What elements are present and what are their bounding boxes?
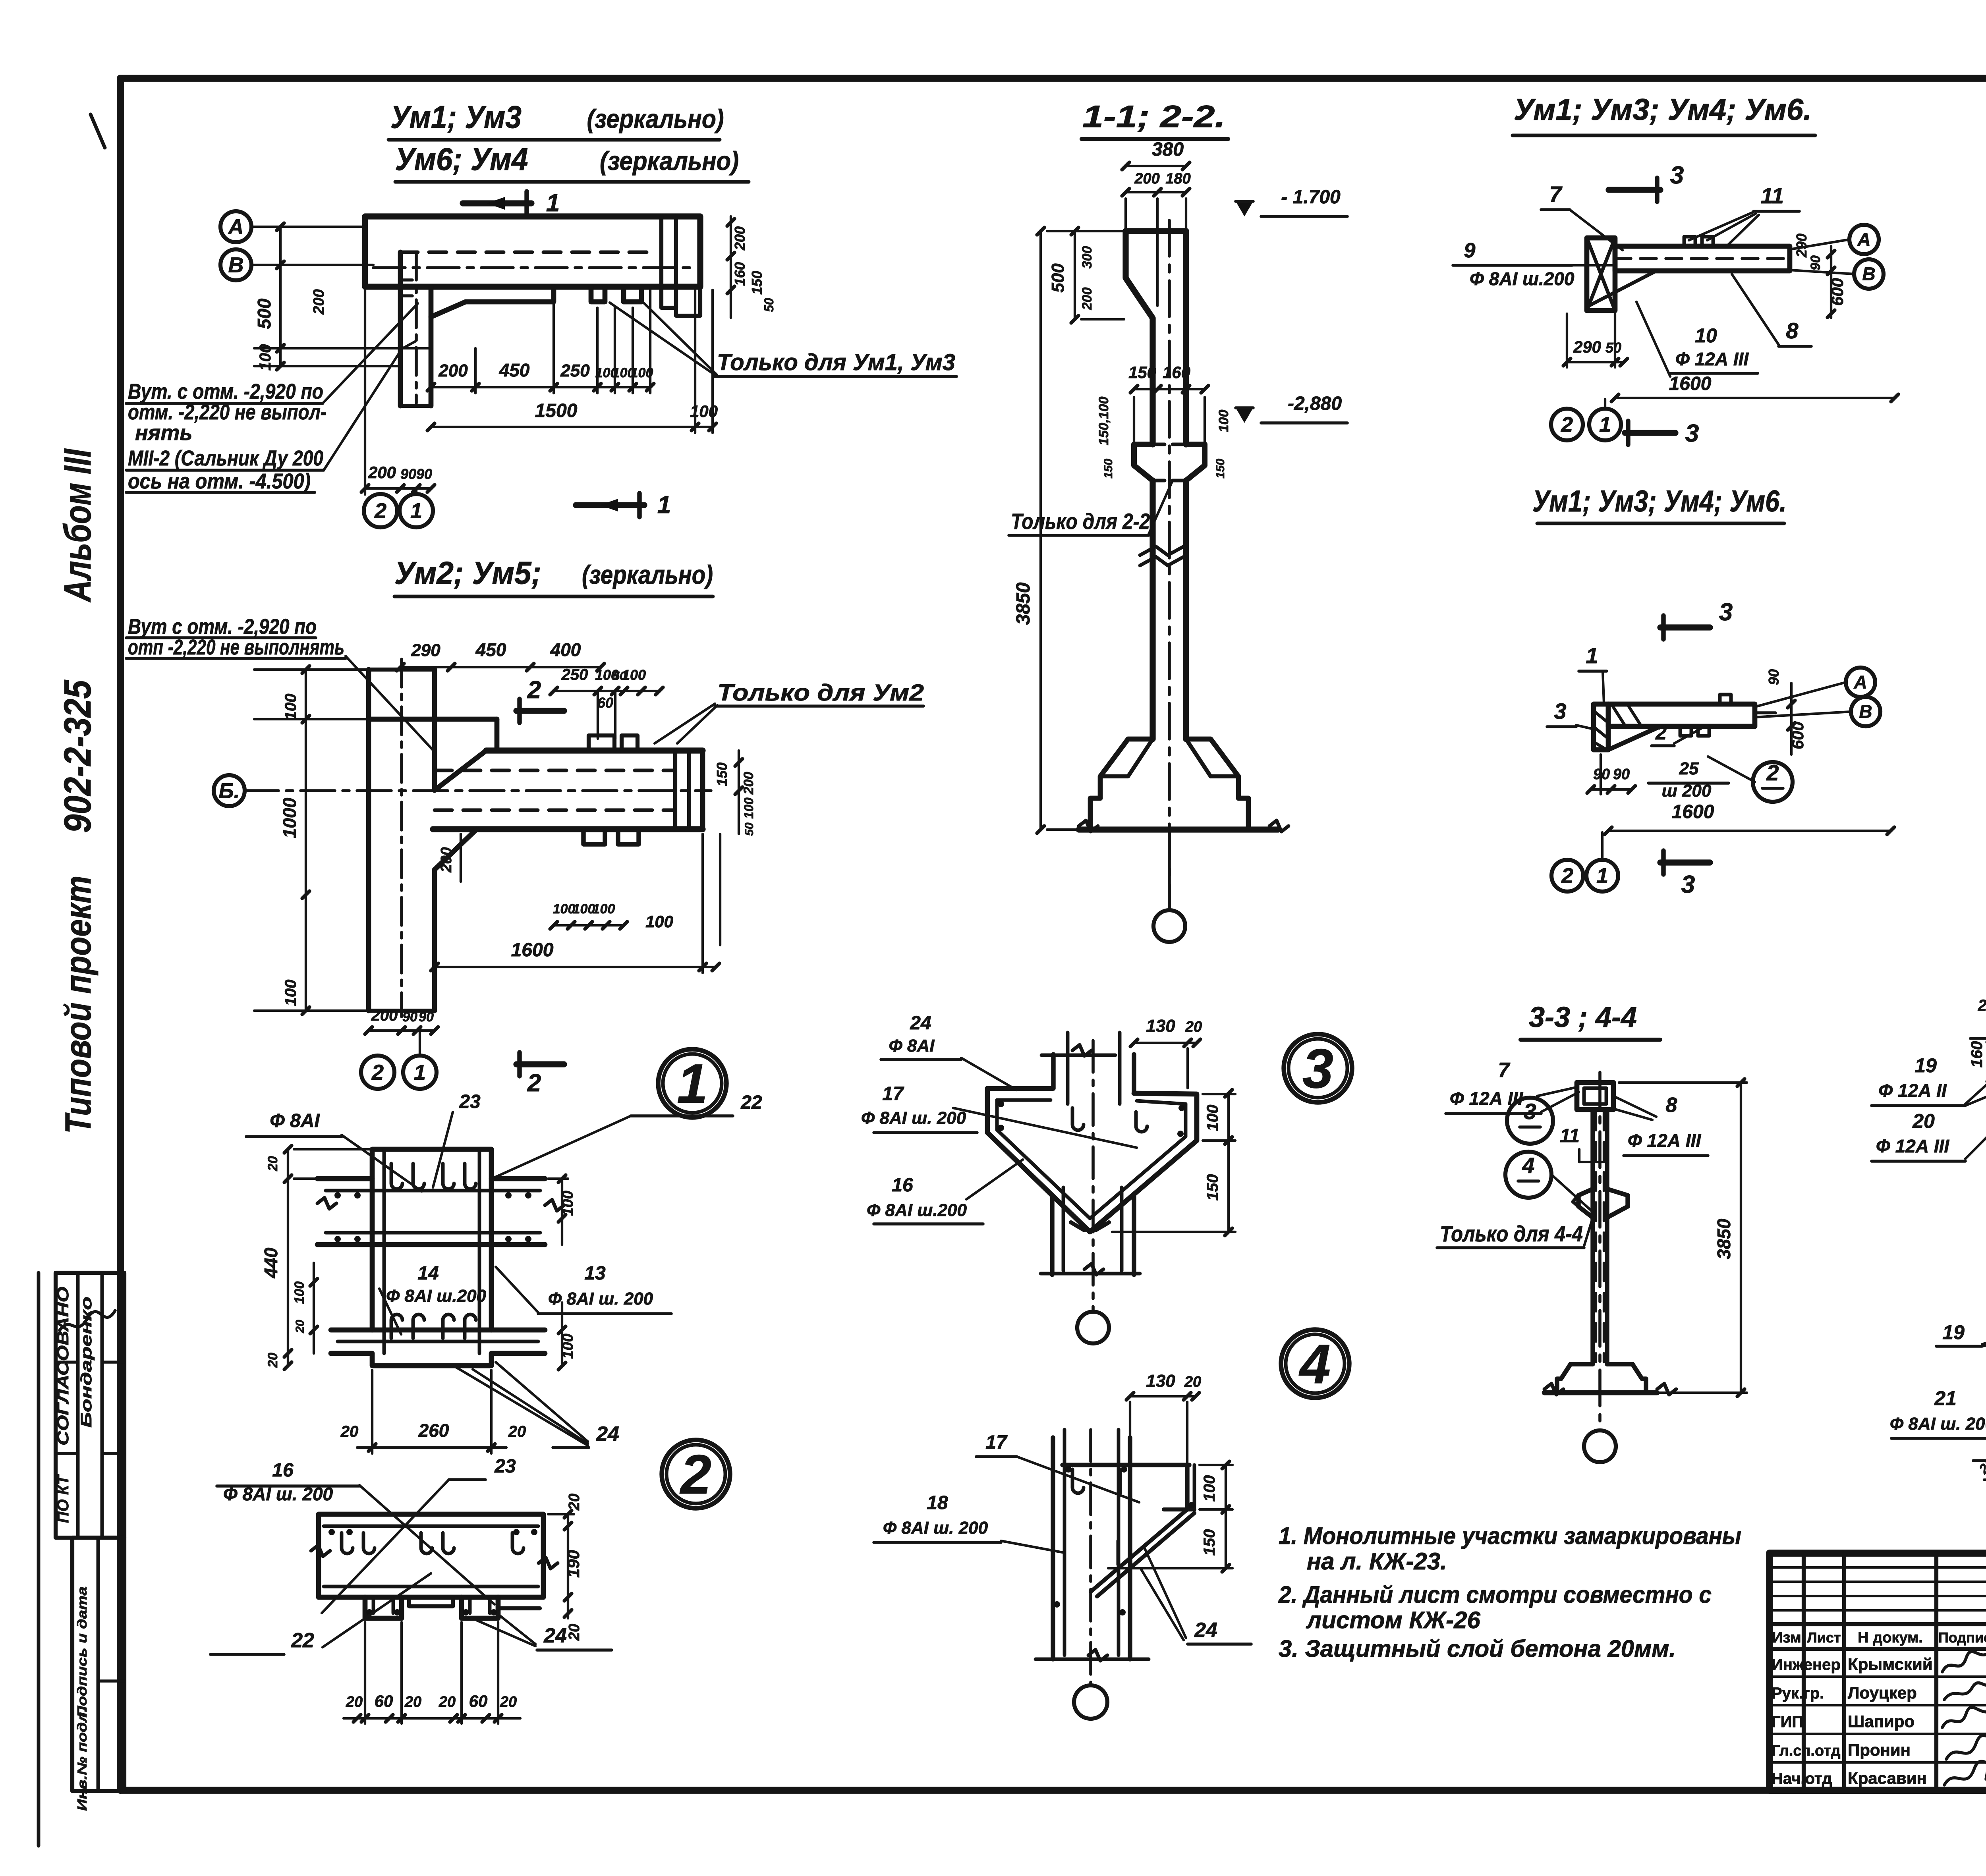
svg-text:4: 4 bbox=[1522, 1153, 1534, 1178]
detail4 right stub bbox=[1185, 1465, 1189, 1509]
svg-text:90: 90 bbox=[400, 466, 416, 482]
svg-text:1. Монолитные участки замаркир: 1. Монолитные участки замаркированы bbox=[1279, 1523, 1741, 1549]
svg-text:2: 2 bbox=[371, 1060, 384, 1084]
svg-text:3. Защитный слой бетона 20мм.: 3. Защитный слой бетона 20мм. bbox=[1279, 1635, 1676, 1662]
svg-text:23: 23 bbox=[494, 1456, 516, 1477]
detail2 break marks bbox=[311, 1545, 330, 1556]
leader note to leg bbox=[323, 303, 418, 403]
svg-text:11: 11 bbox=[1560, 1125, 1580, 1146]
svg-text:100: 100 bbox=[1216, 410, 1231, 432]
svg-text:20: 20 bbox=[1184, 1374, 1201, 1390]
plan1 dim row 200 90 90 bbox=[365, 487, 431, 490]
bracket console bbox=[1134, 444, 1153, 481]
svg-text:Ф 12А III: Ф 12А III bbox=[1876, 1136, 1949, 1156]
svg-text:160: 160 bbox=[1163, 363, 1190, 382]
detail3 rebar dots bbox=[998, 1101, 1004, 1107]
svg-text:Ум6; Ум4: Ум6; Ум4 bbox=[395, 141, 528, 177]
svg-text:Ум2; Ум5;: Ум2; Ум5; bbox=[394, 555, 541, 591]
svg-text:150: 150 bbox=[1102, 459, 1115, 479]
svg-text:на л. КЖ-23.: на л. КЖ-23. bbox=[1307, 1548, 1447, 1575]
svg-text:100: 100 bbox=[622, 667, 646, 683]
plan1 right end niche bbox=[661, 287, 676, 308]
svg-text:100: 100 bbox=[1204, 1105, 1221, 1131]
detail2 rebar lines bbox=[324, 1525, 538, 1528]
svg-text:4: 4 bbox=[1298, 1333, 1331, 1395]
svg-text:3: 3 bbox=[1685, 420, 1699, 447]
svg-text:3850: 3850 bbox=[1013, 582, 1034, 625]
plan2 dim row 250 100 50 100 bbox=[554, 690, 659, 692]
detail3 right dims 100 150 bbox=[1227, 1093, 1230, 1232]
svg-text:Ум1; Ум3: Ум1; Ум3 bbox=[390, 99, 522, 135]
svg-text:180: 180 bbox=[1165, 170, 1190, 187]
plan1 leg small dashes bbox=[400, 278, 416, 282]
svg-text:Гл.сп.отд: Гл.сп.отд bbox=[1772, 1743, 1841, 1759]
detail4 upper wall verticals bbox=[1051, 1438, 1055, 1659]
R3 bar end lines bbox=[1752, 704, 1757, 726]
svg-text:20: 20 bbox=[1978, 997, 1986, 1014]
detail1 left dim 440 bbox=[287, 1149, 289, 1366]
plan2 top notches bbox=[589, 735, 614, 751]
svg-text:Ф 8АI ш.200: Ф 8АI ш.200 bbox=[386, 1286, 487, 1306]
svg-text:Ф 8АI: Ф 8АI bbox=[889, 1036, 935, 1056]
svg-text:2: 2 bbox=[679, 1443, 711, 1505]
svg-text:Ф 8АI ш.200: Ф 8АI ш.200 bbox=[867, 1200, 967, 1220]
R3 section mark 3 bottom bbox=[1660, 859, 1710, 865]
svg-text:90: 90 bbox=[1613, 766, 1630, 783]
detail4 right dims 100 150 bbox=[1225, 1465, 1227, 1568]
svg-text:19: 19 bbox=[1942, 1321, 1965, 1343]
svg-text:20: 20 bbox=[566, 1624, 583, 1641]
svg-text:Ф 12А II: Ф 12А II bbox=[1878, 1080, 1947, 1101]
plan1 wall bar outline bbox=[365, 216, 700, 287]
svg-text:Изм: Изм bbox=[1772, 1629, 1801, 1646]
svg-text:ПО КТ: ПО КТ bbox=[54, 1474, 72, 1523]
svg-text:100: 100 bbox=[560, 1191, 576, 1216]
R3 flange outline bbox=[1594, 704, 1608, 750]
dim 3850 left bbox=[1039, 231, 1042, 830]
svg-text:24: 24 bbox=[1194, 1619, 1217, 1642]
elev centerline and axis bubble bbox=[1598, 1072, 1602, 1429]
svg-text:Инженер: Инженер bbox=[1772, 1656, 1841, 1673]
R3 bubbles 2 1 bottom bbox=[1551, 860, 1583, 892]
svg-text:ГИП: ГИП bbox=[1772, 1713, 1803, 1731]
svg-text:7: 7 bbox=[1498, 1059, 1511, 1082]
detail 4 big circle bbox=[1281, 1330, 1349, 1398]
R1 flange outline bbox=[1587, 238, 1615, 311]
svg-text:200: 200 bbox=[732, 226, 748, 251]
svg-text:3: 3 bbox=[1302, 1037, 1333, 1100]
plan2 dim row 200 90 90 bbox=[369, 1029, 435, 1032]
svg-text:Только для 2-2: Только для 2-2 bbox=[1011, 509, 1150, 534]
stem break marks bbox=[1140, 546, 1184, 555]
svg-text:60: 60 bbox=[469, 1692, 488, 1710]
svg-text:1600: 1600 bbox=[1669, 373, 1712, 394]
svg-text:450: 450 bbox=[475, 639, 506, 660]
R1 section mark 3 bottom bbox=[1625, 430, 1675, 436]
svg-text:200: 200 bbox=[311, 289, 327, 315]
svg-text:2. Данный лист смотри совместн: 2. Данный лист смотри совместно с bbox=[1278, 1581, 1712, 1608]
svg-text:СОГЛАСОВАНО: СОГЛАСОВАНО bbox=[54, 1287, 72, 1446]
R1 bar diagonal brace bbox=[1589, 271, 1656, 306]
svg-text:1: 1 bbox=[1596, 864, 1608, 888]
svg-text:20: 20 bbox=[1912, 1110, 1935, 1132]
svg-text:24: 24 bbox=[596, 1422, 619, 1446]
detail3 lower wall stem bbox=[1050, 1197, 1054, 1275]
svg-text:Шапиро: Шапиро bbox=[1848, 1712, 1915, 1731]
detail1 slab bottom edge bbox=[317, 1242, 545, 1247]
detail1 inner left dims bbox=[313, 1263, 315, 1353]
detail2 slab outline bbox=[319, 1514, 543, 1597]
svg-text:20: 20 bbox=[265, 1353, 280, 1368]
detail2 stub left bbox=[365, 1597, 402, 1618]
plan1 inner profile with notches bbox=[431, 287, 554, 317]
svg-text:Только для 4-4: Только для 4-4 bbox=[1440, 1221, 1583, 1246]
svg-text:(зеркально): (зеркально) bbox=[600, 146, 739, 176]
svg-text:90: 90 bbox=[1766, 669, 1782, 685]
svg-text:2: 2 bbox=[374, 499, 386, 523]
detail3 centerline bbox=[1092, 1040, 1095, 1310]
footing outline bbox=[1090, 739, 1153, 830]
drawing frame border bbox=[120, 75, 1986, 82]
svg-text:200: 200 bbox=[741, 772, 756, 795]
svg-text:2: 2 bbox=[527, 676, 541, 704]
svg-text:150,100: 150,100 bbox=[1096, 396, 1111, 445]
R3 axis bubbles A B bbox=[1846, 668, 1875, 697]
svg-text:МII-2 (Сальник Ду 200: МII-2 (Сальник Ду 200 bbox=[128, 446, 323, 470]
svg-text:18: 18 bbox=[927, 1492, 948, 1513]
section mark 2 bottom bbox=[516, 1061, 564, 1067]
stamp box soglasovano bbox=[56, 1273, 124, 1538]
svg-text:1000: 1000 bbox=[279, 797, 300, 838]
svg-text:Ф 8АI ш. 200: Ф 8АI ш. 200 bbox=[1890, 1414, 1986, 1434]
plan2 bottom notches bbox=[583, 829, 605, 844]
svg-text:500: 500 bbox=[1048, 263, 1068, 293]
svg-text:150: 150 bbox=[1214, 459, 1227, 479]
svg-text:300: 300 bbox=[1080, 246, 1095, 269]
detail4 bottom edge bbox=[1036, 1658, 1149, 1661]
svg-text:130: 130 bbox=[1146, 1371, 1175, 1391]
svg-text:3: 3 bbox=[1524, 1099, 1536, 1124]
svg-text:150: 150 bbox=[714, 762, 730, 786]
svg-text:Альбом III: Альбом III bbox=[56, 448, 99, 602]
svg-text:А: А bbox=[1853, 672, 1867, 693]
svg-text:100: 100 bbox=[282, 694, 299, 720]
detail3 inner rebar outline bbox=[997, 1100, 1186, 1218]
detail1 break marks bbox=[317, 1198, 336, 1209]
svg-text:260: 260 bbox=[418, 1420, 449, 1441]
svg-text:200: 200 bbox=[438, 361, 468, 380]
svg-text:200: 200 bbox=[1080, 288, 1095, 311]
svg-text:20: 20 bbox=[404, 1694, 421, 1710]
svg-text:20: 20 bbox=[340, 1423, 359, 1440]
svg-text:200: 200 bbox=[368, 463, 396, 482]
plan2 bubbles 2 1 bbox=[361, 1056, 394, 1089]
svg-text:1600: 1600 bbox=[511, 940, 554, 961]
svg-text:1600: 1600 bbox=[1672, 801, 1714, 822]
svg-text:3: 3 bbox=[1681, 871, 1695, 898]
svg-text:22: 22 bbox=[291, 1629, 314, 1652]
svg-text:100: 100 bbox=[573, 901, 595, 917]
svg-text:16: 16 bbox=[892, 1175, 913, 1196]
detail2 right ledge bbox=[498, 1606, 540, 1610]
R1 flange X brace bbox=[1587, 238, 1615, 311]
svg-text:3: 3 bbox=[1719, 598, 1733, 626]
plan2 axis B centerline bbox=[244, 789, 711, 792]
svg-text:160: 160 bbox=[1968, 1041, 1986, 1068]
svg-text:100: 100 bbox=[645, 912, 673, 931]
svg-text:3-3 ; 4-4: 3-3 ; 4-4 bbox=[1529, 1002, 1637, 1033]
svg-text:50: 50 bbox=[1605, 340, 1621, 356]
R1 bar teeth bbox=[1684, 237, 1695, 246]
svg-text:1: 1 bbox=[546, 189, 560, 217]
plan1 column bubbles 2 1 bbox=[364, 494, 397, 527]
detail 3 big circle bbox=[1284, 1034, 1352, 1102]
plan2 dim 1600 100 bbox=[435, 966, 716, 968]
svg-text:400: 400 bbox=[550, 639, 581, 660]
svg-text:500: 500 bbox=[254, 298, 274, 329]
svg-text:2: 2 bbox=[1655, 722, 1667, 744]
stray pencil mark top left bbox=[91, 114, 105, 148]
plan2 hidden dashed lines bbox=[435, 769, 675, 772]
svg-text:Ф 12А III: Ф 12А III bbox=[1628, 1130, 1701, 1151]
title block revision rows bbox=[1770, 1566, 1986, 1569]
svg-text:17: 17 bbox=[985, 1432, 1008, 1453]
svg-text:100: 100 bbox=[292, 1282, 307, 1304]
svg-text:22: 22 bbox=[740, 1092, 762, 1113]
svg-text:290: 290 bbox=[411, 641, 440, 660]
plan2 bar right verticals bbox=[673, 751, 677, 829]
svg-text:24: 24 bbox=[543, 1624, 567, 1647]
svg-text:150: 150 bbox=[1201, 1529, 1218, 1556]
svg-text:200: 200 bbox=[1134, 170, 1159, 187]
svg-text:Вут. с отм. -2,920 по: Вут. с отм. -2,920 по bbox=[128, 380, 323, 403]
svg-text:2: 2 bbox=[527, 1069, 541, 1097]
plan2 top dim row 290 450 400 bbox=[400, 666, 601, 668]
detail1 slab top edge with raised center bbox=[317, 1149, 545, 1179]
svg-text:В: В bbox=[228, 253, 244, 277]
svg-text:(зеркально): (зеркально) bbox=[587, 104, 724, 133]
svg-text:450: 450 bbox=[499, 360, 530, 380]
elev middle diamond bracket bbox=[1578, 1189, 1593, 1218]
detail1 bottom rebar line bbox=[338, 1340, 538, 1343]
svg-text:Вут с отм. -2,920 по: Вут с отм. -2,920 по bbox=[128, 615, 317, 639]
plan1 axis B centerline bbox=[373, 266, 693, 269]
svg-text:90: 90 bbox=[419, 1009, 434, 1025]
svg-text:1-1; 2-2.: 1-1; 2-2. bbox=[1082, 99, 1225, 134]
svg-text:13: 13 bbox=[584, 1263, 606, 1284]
stamp box inv no podl bbox=[72, 1538, 124, 1791]
svg-text:90: 90 bbox=[402, 1009, 417, 1025]
svg-text:9: 9 bbox=[1464, 239, 1476, 262]
svg-text:60: 60 bbox=[375, 1692, 393, 1710]
plan1 dim row 1500 100 bbox=[431, 426, 713, 428]
svg-text:16: 16 bbox=[272, 1460, 294, 1481]
R3 bar notches bbox=[1680, 726, 1691, 736]
plan2 left vertical dims bbox=[305, 670, 307, 1011]
svg-text:Только для Ум2: Только для Ум2 bbox=[717, 680, 924, 706]
svg-text:50: 50 bbox=[762, 298, 776, 312]
detail4 top edge bbox=[1063, 1463, 1189, 1467]
plan1 right end lower box bbox=[676, 287, 700, 316]
svg-text:1: 1 bbox=[657, 491, 671, 519]
svg-text:А: А bbox=[228, 215, 244, 239]
svg-text:20: 20 bbox=[439, 1694, 456, 1710]
svg-text:Н докум.: Н докум. bbox=[1858, 1629, 1923, 1646]
R3 fraction bubble 2 bbox=[1753, 762, 1793, 802]
svg-text:17: 17 bbox=[882, 1083, 904, 1104]
stamp signature squiggle bbox=[60, 1310, 115, 1330]
column stem bbox=[1149, 481, 1155, 739]
svg-text:200: 200 bbox=[438, 847, 455, 872]
svg-text:Нач.отд: Нач.отд bbox=[1772, 1770, 1832, 1787]
svg-text:90: 90 bbox=[1808, 255, 1823, 270]
detail1 right dims 100 150 bbox=[561, 1179, 563, 1245]
svg-text:2: 2 bbox=[1766, 760, 1779, 785]
svg-text:Ф 8АI: Ф 8АI bbox=[270, 1110, 320, 1131]
svg-text:10: 10 bbox=[1695, 324, 1717, 347]
detail3 hooks upper bbox=[1072, 1108, 1084, 1130]
detail1 top rebar line bbox=[326, 1189, 540, 1193]
plan1 leg centerline dashed bbox=[415, 252, 418, 403]
svg-text:Ф 8АI ш. 200: Ф 8АI ш. 200 bbox=[548, 1289, 653, 1309]
svg-text:250: 250 bbox=[560, 361, 590, 380]
svg-text:20: 20 bbox=[508, 1423, 526, 1440]
svg-text:Подпись: Подпись bbox=[1938, 1629, 1986, 1646]
svg-text:Подпись и дата: Подпись и дата bbox=[75, 1586, 89, 1718]
section mark 1 top bbox=[463, 200, 531, 206]
svg-text:Красавин: Красавин bbox=[1848, 1769, 1927, 1787]
detail2 hooks bbox=[342, 1533, 353, 1554]
svg-text:2: 2 bbox=[1561, 864, 1573, 888]
svg-text:902-2-325: 902-2-325 bbox=[56, 679, 99, 833]
svg-text:24: 24 bbox=[910, 1013, 931, 1034]
title block signature rows bbox=[1770, 1675, 1986, 1678]
svg-text:1: 1 bbox=[410, 499, 422, 523]
svg-text:130: 130 bbox=[1146, 1016, 1175, 1036]
svg-text:Ф 12А III: Ф 12А III bbox=[1675, 349, 1749, 369]
svg-text:150: 150 bbox=[1128, 363, 1156, 382]
svg-text:290: 290 bbox=[1573, 338, 1601, 356]
svg-text:Ум1; Ум3; Ум4; Ум6.: Ум1; Ум3; Ум4; Ум6. bbox=[1514, 93, 1812, 127]
svg-text:Крымский: Крымский bbox=[1848, 1655, 1933, 1673]
detail 1 big circle bbox=[658, 1049, 726, 1117]
elev footing bbox=[1557, 1364, 1593, 1393]
svg-text:20: 20 bbox=[500, 1694, 517, 1710]
svg-text:25: 25 bbox=[1679, 759, 1699, 778]
svg-text:20: 20 bbox=[294, 1320, 307, 1334]
svg-text:Лоуцкер: Лоуцкер bbox=[1848, 1683, 1917, 1702]
plan1 left leg wall bbox=[398, 252, 403, 406]
svg-text:150: 150 bbox=[1204, 1174, 1221, 1201]
svg-text:380: 380 bbox=[1152, 139, 1184, 160]
svg-text:Инв.№ подл.: Инв.№ подл. bbox=[75, 1708, 89, 1811]
R1 axis bubbles A B bbox=[1849, 225, 1879, 254]
plan1 dim row 200 450 250 100 100 100 bbox=[431, 386, 650, 388]
plan2 chamfer diagonals bbox=[435, 751, 486, 790]
dims 500 200 300 left top bbox=[1074, 231, 1076, 319]
detail2 stub right bbox=[462, 1597, 498, 1618]
svg-text:В: В bbox=[1859, 701, 1872, 722]
elev fraction bubbles 3 4 bbox=[1507, 1098, 1553, 1144]
svg-text:Пронин: Пронин bbox=[1848, 1741, 1911, 1759]
detail4 rebar hooks bbox=[1072, 1469, 1084, 1493]
svg-text:19: 19 bbox=[1915, 1054, 1937, 1077]
detail2 bottom dims bbox=[344, 1717, 520, 1720]
svg-text:Рук.гр.: Рук.гр. bbox=[1772, 1685, 1824, 1702]
svg-text:Лист: Лист bbox=[1807, 1629, 1841, 1646]
svg-text:3: 3 bbox=[1554, 699, 1566, 724]
plan1 axis circle B bbox=[220, 249, 251, 280]
title block outer box bbox=[1770, 1553, 1986, 1790]
svg-text:11: 11 bbox=[1761, 183, 1784, 208]
svg-text:(зеркально): (зеркально) bbox=[582, 560, 713, 589]
svg-text:100: 100 bbox=[560, 1334, 576, 1359]
R3 section mark 3 top bbox=[1660, 624, 1710, 630]
svg-text:100: 100 bbox=[593, 901, 615, 917]
R3 bar hatch bbox=[1613, 706, 1625, 725]
svg-text:60: 60 bbox=[597, 695, 613, 711]
svg-text:20: 20 bbox=[265, 1156, 280, 1172]
plan2 left column wall bbox=[366, 670, 371, 1011]
plan2 axis circle B bbox=[214, 775, 245, 806]
svg-text:23: 23 bbox=[459, 1091, 481, 1112]
detail4 chamfer diagonal double bbox=[1091, 1509, 1187, 1592]
svg-text:20: 20 bbox=[346, 1694, 363, 1710]
svg-text:190: 190 bbox=[564, 1550, 583, 1578]
svg-text:8: 8 bbox=[1666, 1094, 1677, 1117]
svg-text:1500: 1500 bbox=[535, 400, 578, 421]
R1 section mark 3 top bbox=[1609, 187, 1660, 193]
section mark 1 bottom bbox=[576, 502, 644, 508]
svg-text:Ум1; Ум3; Ум4; Ум6.: Ум1; Ум3; Ум4; Ум6. bbox=[1532, 484, 1787, 518]
detail4 axis bubble bbox=[1074, 1685, 1107, 1719]
svg-text:50: 50 bbox=[743, 822, 756, 836]
axis bubble bottom bbox=[1153, 910, 1185, 942]
detail2 center bump bbox=[409, 1597, 453, 1606]
svg-text:20: 20 bbox=[1185, 1019, 1202, 1035]
svg-text:Ф 8АI ш. 200: Ф 8АI ш. 200 bbox=[861, 1108, 966, 1128]
svg-text:200: 200 bbox=[371, 1007, 398, 1024]
R3 flange hatch bbox=[1594, 711, 1608, 723]
svg-text:ось на отм. -4.500): ось на отм. -4.500) bbox=[128, 469, 311, 493]
column centerline bbox=[1168, 220, 1171, 910]
detail1 bottom slab bbox=[331, 1328, 545, 1333]
title block left columns bbox=[1802, 1553, 1806, 1790]
section mark 2 top bbox=[516, 708, 564, 714]
detail4 centerline bbox=[1089, 1430, 1092, 1684]
R1 bar centerline dashed bbox=[1615, 257, 1787, 260]
detail1 bottom dims 20 260 20 bbox=[357, 1446, 506, 1449]
svg-text:20: 20 bbox=[566, 1494, 583, 1511]
svg-text:250: 250 bbox=[561, 666, 588, 683]
svg-text:А: А bbox=[1857, 229, 1870, 250]
elev stem rebar dashed bbox=[1595, 1112, 1597, 1362]
svg-text:2: 2 bbox=[1561, 413, 1573, 436]
svg-text:В: В bbox=[1862, 264, 1875, 284]
svg-text:3: 3 bbox=[1670, 162, 1684, 189]
svg-text:90: 90 bbox=[416, 466, 432, 482]
svg-text:листом КЖ-26: листом КЖ-26 bbox=[1306, 1607, 1480, 1633]
plan2 wall bar outlines bbox=[486, 747, 703, 753]
svg-text:100: 100 bbox=[1201, 1475, 1218, 1502]
R3 chamfer bbox=[1608, 726, 1660, 750]
svg-text:1: 1 bbox=[677, 1052, 708, 1115]
detail3 upper wall bbox=[1051, 1054, 1055, 1089]
plan1 hidden edge dashed bbox=[400, 251, 655, 254]
detail3 axis bubble bbox=[1077, 1312, 1109, 1343]
svg-text:100: 100 bbox=[742, 797, 756, 819]
svg-text:14: 14 bbox=[417, 1263, 439, 1284]
